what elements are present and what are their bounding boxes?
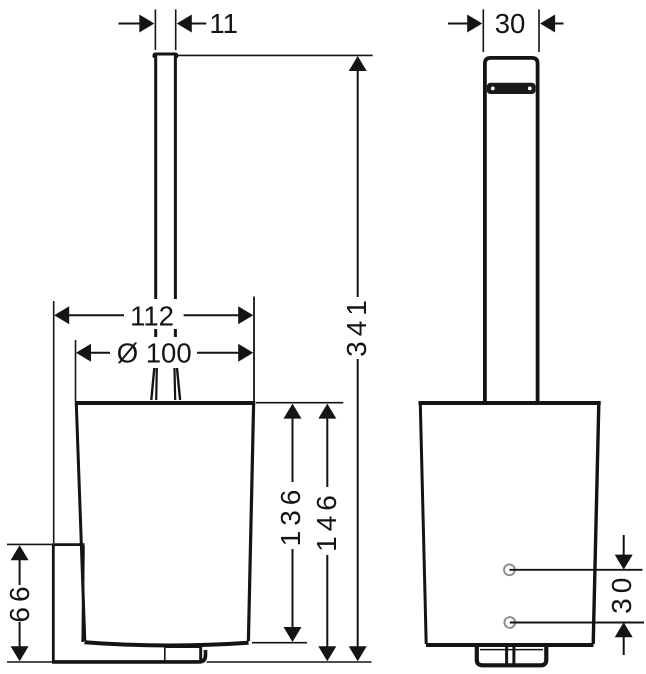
svg-text:112: 112 bbox=[130, 300, 174, 331]
svg-text:341: 341 bbox=[341, 295, 372, 357]
svg-text:11: 11 bbox=[209, 8, 238, 39]
svg-text:136: 136 bbox=[275, 485, 306, 547]
svg-text:30: 30 bbox=[606, 573, 637, 614]
svg-text:66: 66 bbox=[4, 581, 35, 622]
svg-text:146: 146 bbox=[311, 490, 342, 552]
svg-text:Ø 100: Ø 100 bbox=[117, 337, 192, 368]
svg-text:30: 30 bbox=[495, 8, 526, 39]
